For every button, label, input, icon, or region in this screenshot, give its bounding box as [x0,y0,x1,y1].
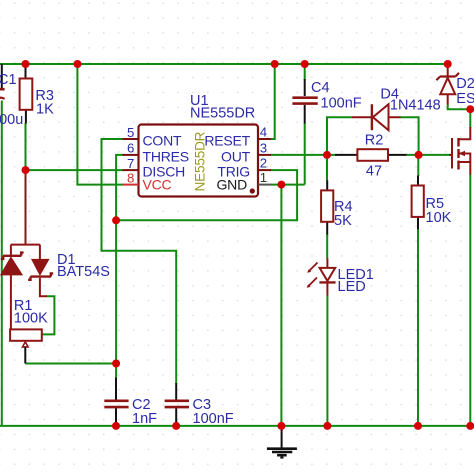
wire R5 bottom to rail [417,229,419,426]
junction top rail at R3 [22,60,30,68]
svg-text:10K: 10K [426,210,452,226]
svg-text:BAT54S: BAT54S [57,264,110,280]
svg-text:OUT: OUT [221,148,251,164]
wire OUT node down to R4 [326,155,328,181]
junction R3/DISCH/D1 [22,166,30,174]
svg-text:100u: 100u [0,112,23,128]
svg-text:D2: D2 [456,76,474,92]
diode D1 BAT54S [1,170,110,329]
svg-text:1nF: 1nF [132,411,157,427]
svg-text:3: 3 [260,141,267,156]
svg-text:THRES: THRES [143,148,189,164]
wire OUT pin 3 to R2 [270,154,336,156]
resistor R4 [321,180,352,234]
svg-text:8: 8 [127,170,134,185]
wire R4 bottom to LED top [326,234,328,259]
resistor R5 [412,176,452,230]
svg-text:5K: 5K [334,213,352,229]
wire gate node down to R5 [417,155,419,176]
junction rail R5 [414,422,422,430]
svg-text:GND: GND [216,177,247,193]
svg-text:1N4148: 1N4148 [390,98,441,114]
wire VCC riser to pin 8 [77,64,123,185]
wire OUT node up to D4 cathode [327,117,353,155]
wire THRES pin 6 vertical [116,155,123,378]
wire VCC top rail [0,63,448,65]
svg-text:RESET: RESET [204,133,250,149]
svg-text:100nF: 100nF [193,411,234,427]
pin 4 RESET stub [258,138,271,140]
wire CONT pin 5 to C3 [102,139,177,384]
pin 3 OUT stub [258,154,271,156]
wire GND bottom rail [0,425,474,427]
capacitor C4 [292,64,361,124]
capacitor C2 [104,378,157,428]
svg-text:4: 4 [260,125,267,140]
capacitor C3 [165,383,234,427]
junction top rail at VCC riser [74,60,82,68]
junction TRIG-THRES [112,216,120,224]
capacitor C1 [0,64,23,426]
svg-text:100K: 100K [14,311,48,327]
svg-text:C1: C1 [0,72,17,88]
pin 1 GND stub [258,184,271,186]
svg-text:2: 2 [260,156,267,171]
svg-text:VCC: VCC [143,177,172,193]
wire R3 bottom to DISCH pin 7 [26,123,124,170]
junction OUT/R4/D4 [323,151,331,159]
wire LED bottom to rail [326,295,328,426]
wire R2 right to gate node [406,154,450,156]
pin 7 DISCH stub [123,169,139,171]
svg-text:5: 5 [127,125,134,140]
junction wiper-THRES [112,360,120,368]
pin 1 marker dot [250,188,255,193]
svg-text:1: 1 [260,170,267,185]
junction rail LED [323,422,331,430]
svg-text:R2: R2 [365,133,384,149]
resistor R2 [335,133,407,180]
wire MOSFET source to rail [469,174,471,426]
wire TRIG pin 2 loop to THRES [116,170,297,220]
LED1 [307,258,374,295]
pin 2 TRIG stub [258,169,271,171]
junction rail MOSFET source [466,422,474,430]
svg-text:LED: LED [338,279,366,295]
pin 5 CONT stub [123,138,139,140]
svg-text:47: 47 [366,164,382,180]
op-amp U1 NE555DR [123,93,272,197]
transistor T1 MOSFET [449,127,470,175]
junction rail ground [277,422,285,430]
ground [267,427,297,458]
pin 8 VCC stub [123,184,139,186]
wire R1 wiper to THRES node [25,363,116,365]
svg-text:1K: 1K [36,102,54,118]
junction rail C2 [112,422,120,430]
svg-text:ES: ES [456,91,474,107]
junction GND pin1 [277,181,285,189]
svg-text:NE555DR: NE555DR [192,131,207,191]
junction top rail at D2 [444,60,452,68]
pin 6 THRES stub [123,154,139,156]
wire D4 anode to R2 right node [400,117,419,155]
junction D2/drain [466,105,474,113]
svg-text:6: 6 [127,141,134,156]
svg-text:C4: C4 [311,80,330,96]
resistor R3 [20,64,54,124]
junction top rail at C4 [301,60,309,68]
wire GND pin 1 to C4 and rail [270,123,305,426]
wire D2 bottom to drain node [448,104,471,128]
junction R2/D4/R5/gate [415,151,423,159]
svg-text:CONT: CONT [143,133,183,149]
junction top rail at pin4 riser [271,60,279,68]
svg-text:NE555DR: NE555DR [190,106,255,122]
wire RESET pin 4 riser [271,64,275,139]
svg-text:7: 7 [127,156,134,171]
junction rail C3 [172,422,180,430]
zener diode D2 [436,64,474,107]
potentiometer R1 [10,298,48,364]
wire D1 right leg to R1 [42,296,55,334]
diode D4 1N4148 [352,87,441,131]
svg-text:100nF: 100nF [321,96,362,112]
